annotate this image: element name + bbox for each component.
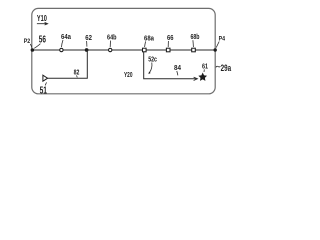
leader 51 [45,82,46,85]
open circle contact 64b [109,48,112,51]
svg-text:Y10: Y10 [37,14,47,23]
open square contact 68b [192,48,196,52]
svg-text:Y20: Y20 [124,72,133,79]
wire 82 (triangle to node 62) [48,50,88,78]
leader 66 [167,41,169,47]
svg-text:52c: 52c [148,54,157,63]
svg-text:62: 62 [85,33,92,42]
sensor triangle 51 [43,75,48,81]
enclosure box 29a (rounded rectangle) [32,8,215,93]
leader P2 [30,44,32,48]
leader 61 [203,69,205,72]
junction dot 62 [85,48,89,52]
arrow under Y10 [37,22,48,25]
open square contact 66 [166,48,170,52]
arrow leader 52c [149,63,152,73]
svg-text:64b: 64b [107,33,117,42]
star terminal 61 [199,73,206,80]
leader 68a [145,41,146,47]
junction dot P2 (left) [31,48,35,52]
leader 84 [177,71,178,75]
svg-text:29a: 29a [221,63,232,74]
leader 82 [75,75,78,77]
leader 56 [34,44,40,49]
open circle contact 64a [60,48,63,51]
svg-text:68b: 68b [191,32,200,41]
svg-text:P4: P4 [219,36,226,43]
main wire (bus 56) [32,49,215,51]
svg-text:61: 61 [202,61,208,70]
leader 64b [109,41,111,47]
leader 68b [192,40,195,47]
svg-text:84: 84 [174,65,181,72]
svg-text:51: 51 [40,85,48,96]
junction dot P4 (right) [214,48,217,51]
leader 64a [62,40,64,47]
svg-text:64a: 64a [61,32,72,41]
arrowhead of wire 84 [194,77,198,80]
wire 52c (from 68a down then right) [144,52,197,79]
svg-text:66: 66 [167,33,174,42]
leader P4 [216,42,219,48]
tilde leader 29a [216,66,221,67]
open square contact 68a [143,48,147,52]
leader 62 [86,41,88,47]
svg-text:P2: P2 [24,38,31,45]
svg-text:68a: 68a [144,34,155,43]
svg-text:82: 82 [74,68,80,77]
